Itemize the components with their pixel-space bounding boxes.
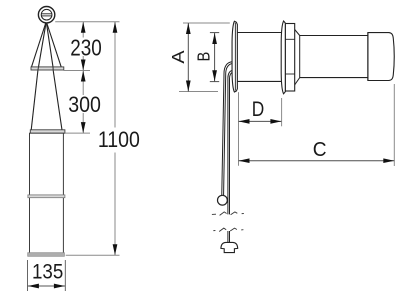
lower cone	[31, 70, 62, 130]
svg-text:230: 230	[70, 34, 102, 60]
cap left edge	[367, 33, 369, 81]
end cap	[368, 33, 394, 81]
dimension B	[193, 33, 219, 82]
long tube	[300, 36, 368, 78]
flange inner edge	[234, 23, 236, 91]
extension line bar2	[66, 132, 91, 134]
post base plate	[28, 253, 65, 257]
ball slot	[42, 14, 52, 16]
bar2 plate	[30, 130, 65, 133]
tube between flanges	[237, 33, 281, 82]
svg-text:300: 300	[68, 92, 101, 117]
ball inner circle	[41, 9, 52, 20]
svg-text:D: D	[252, 98, 265, 121]
flange (left disc)	[232, 21, 237, 92]
lanyard ring	[218, 195, 228, 205]
post divider plate	[28, 195, 65, 198]
dimension C	[239, 84, 395, 166]
svg-text:B: B	[193, 52, 213, 62]
break squiggle 2	[213, 228, 243, 231]
mid disc	[281, 21, 285, 94]
nut facet lines	[285, 39, 294, 74]
dimension 300	[68, 71, 101, 134]
svg-text:135: 135	[32, 259, 63, 283]
lanyard ring cord	[222, 62, 236, 196]
dimension D	[239, 92, 282, 166]
svg-text:1100: 1100	[98, 127, 140, 152]
extension line bottom	[66, 254, 120, 256]
ball outer circle	[38, 7, 54, 23]
dimension 135	[28, 259, 66, 291]
extension line top	[55, 21, 119, 23]
svg-text:A: A	[168, 50, 188, 63]
extension line bar1	[64, 70, 91, 72]
break squiggle 1	[212, 212, 244, 216]
post	[30, 133, 64, 253]
dimension A	[168, 23, 230, 92]
svg-text:C: C	[313, 139, 327, 161]
wires crossing bar1	[38, 67, 53, 70]
lanyard plug cord	[228, 71, 236, 243]
dimension 1100	[98, 22, 140, 256]
bar1 plate	[31, 67, 64, 70]
wire cone upper	[32, 23, 62, 67]
dimension 230	[70, 22, 102, 71]
nut block	[285, 24, 294, 92]
drain plug	[221, 242, 238, 252]
nut chamfers	[295, 30, 300, 85]
